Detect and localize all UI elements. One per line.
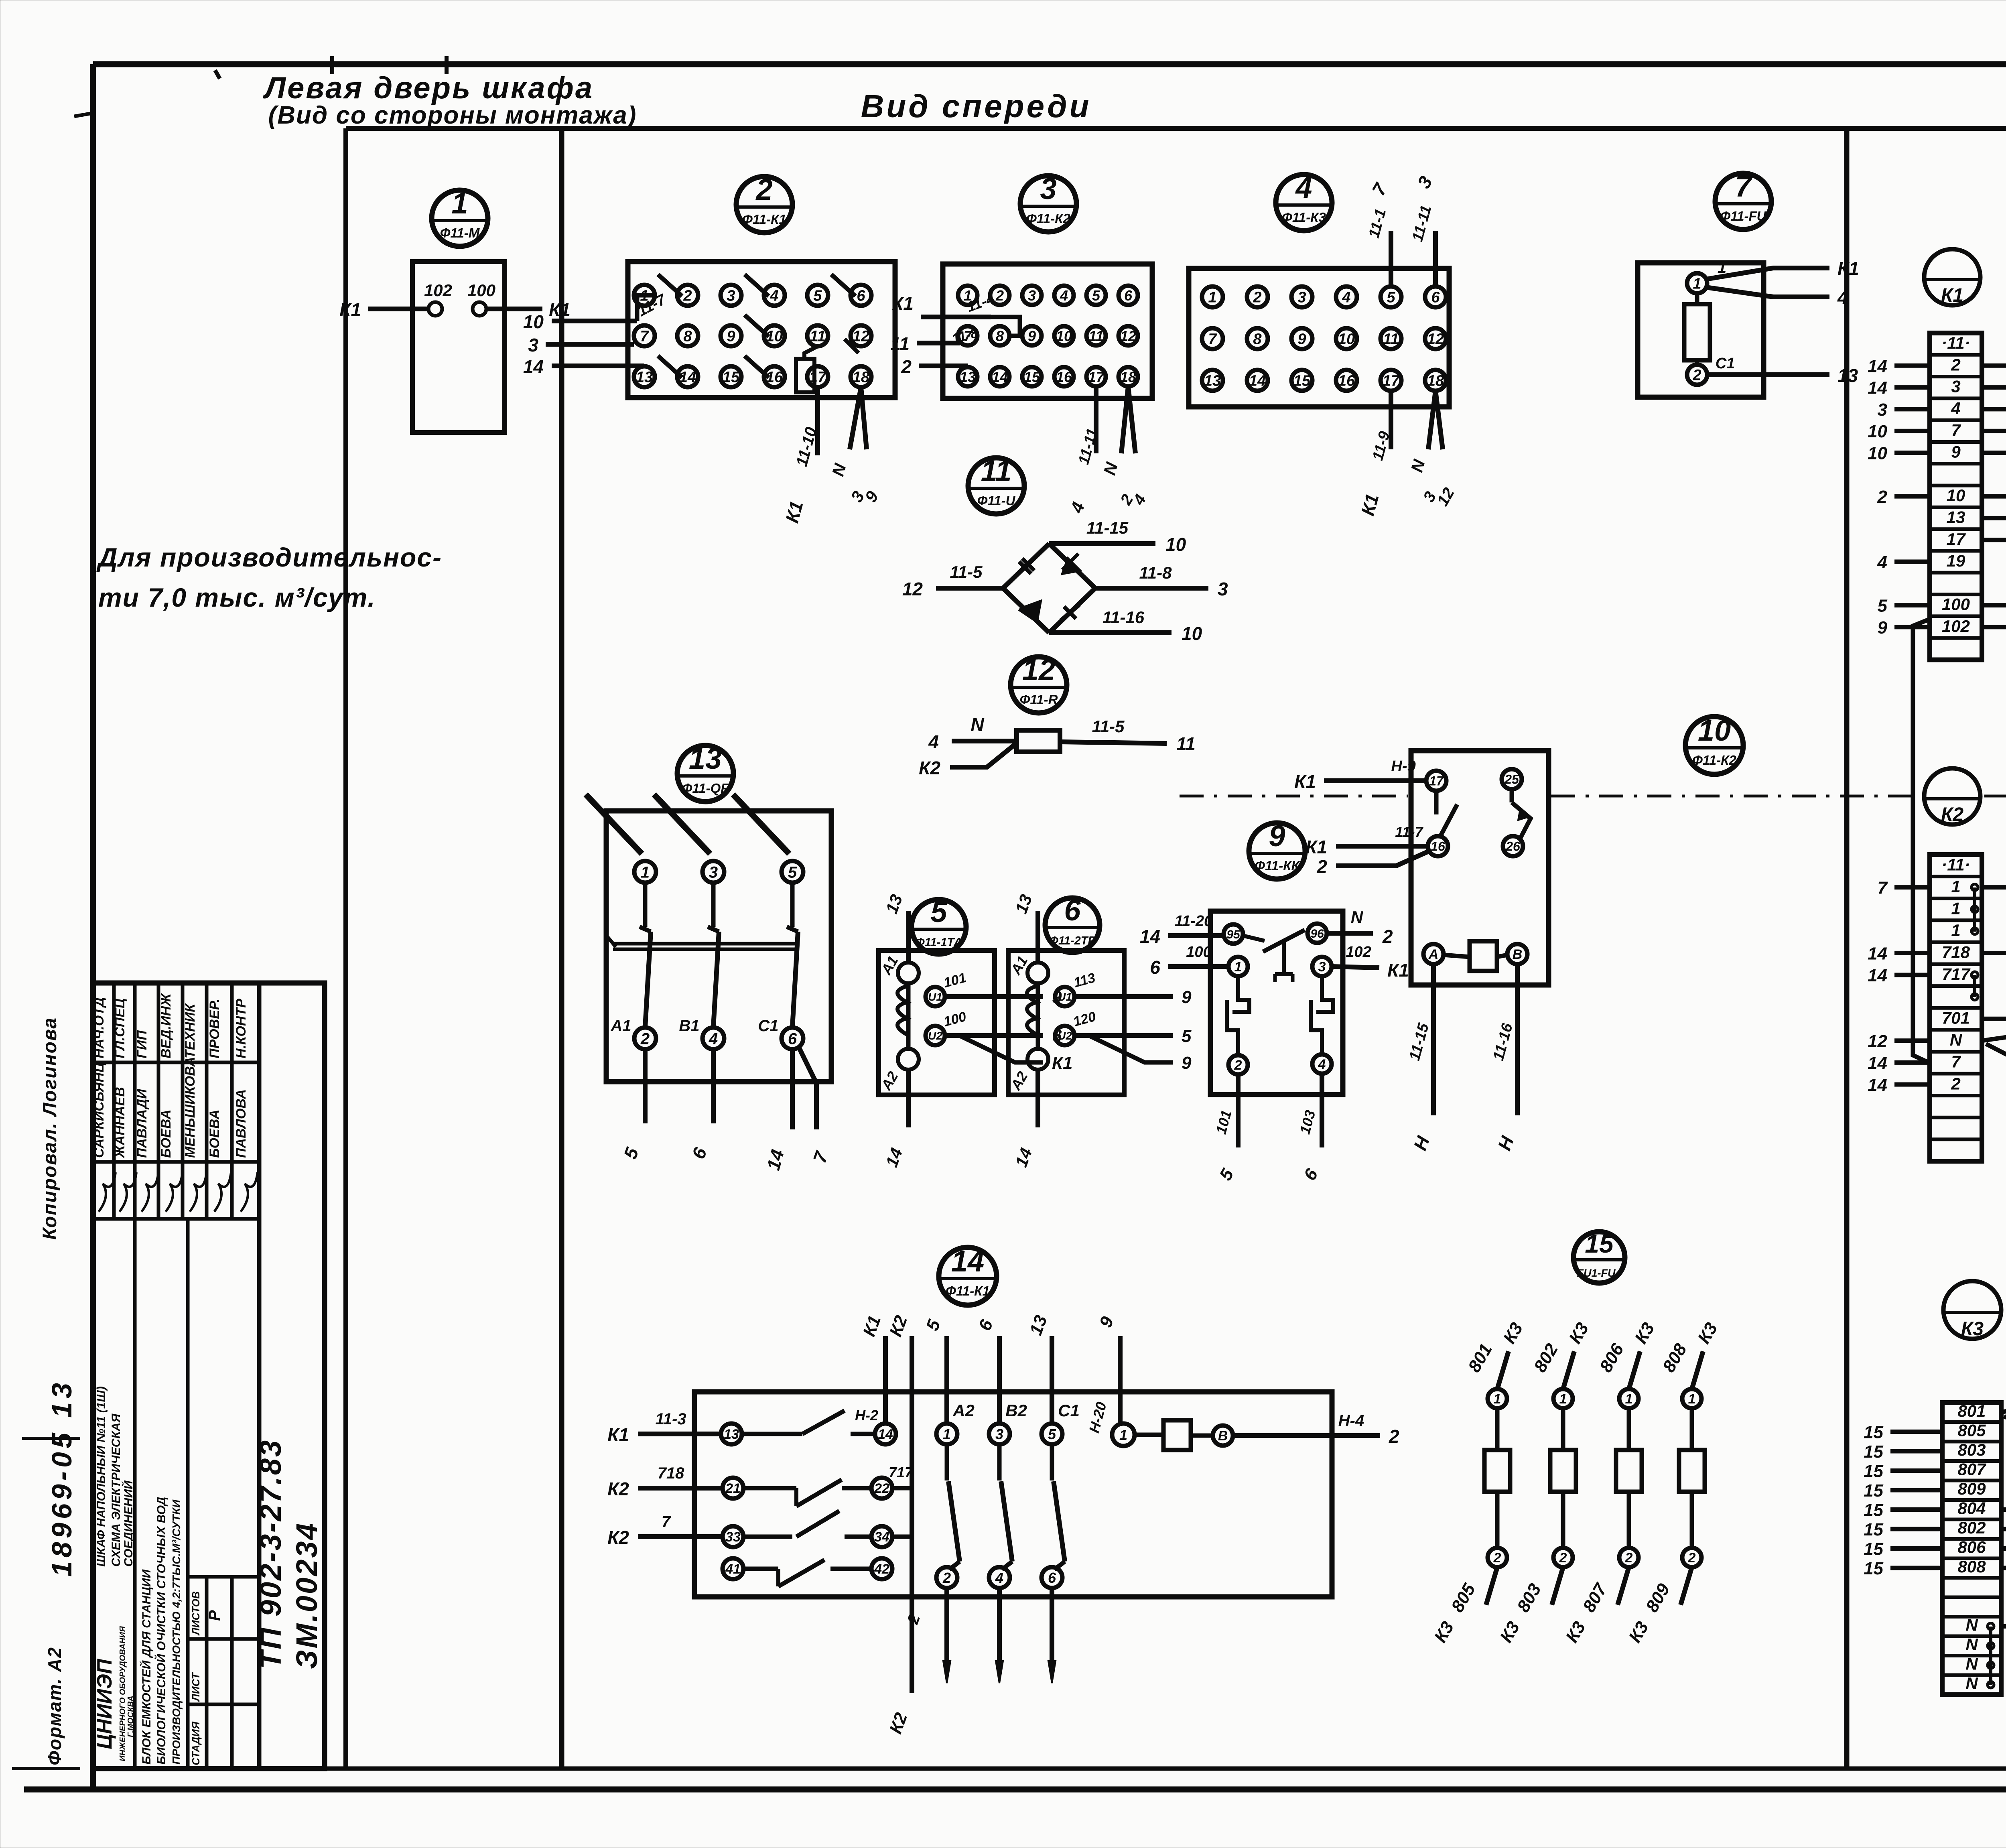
component id bubble 13 Ф11-QF (677, 742, 733, 802)
svg-text:12: 12 (1868, 1032, 1887, 1051)
fuse F with terminals 1 and 2 (1684, 259, 1735, 385)
svg-text:ШКАФ НАПОЛЬНЫЙ №11 (1Ш): ШКАФ НАПОЛЬНЫЙ №11 (1Ш) (94, 1386, 108, 1567)
svg-text:12: 12 (1120, 328, 1136, 344)
wire terminal 100 to K1 (486, 299, 571, 320)
svg-text:14: 14 (992, 369, 1008, 385)
svg-text:95: 95 (1226, 928, 1241, 941)
svg-text:САРКИСЬЯНЦ: САРКИСЬЯНЦ (91, 1062, 107, 1158)
title block signature rows text (91, 993, 258, 1212)
svg-text:3: 3 (1318, 959, 1326, 975)
svg-text:14: 14 (523, 356, 544, 377)
svg-text:В: В (1513, 947, 1523, 962)
svg-text:7: 7 (1878, 878, 1888, 898)
svg-text:4: 4 (1877, 552, 1887, 572)
svg-text:К3: К3 (1961, 1318, 1984, 1340)
svg-text:ЗМ.00234: ЗМ.00234 (290, 1521, 323, 1669)
svg-text:3: 3 (528, 335, 538, 355)
contactor 14 aux contact 33-34 wire K2 7 (607, 1511, 912, 1548)
svg-text:1: 1 (1625, 1391, 1633, 1407)
lamp/appliance box 1 Ф11-М with terminals 102 100 (412, 262, 505, 433)
svg-text:В1: В1 (679, 1017, 699, 1035)
svg-text:102: 102 (1346, 944, 1371, 961)
svg-text:17: 17 (1088, 369, 1105, 385)
bridge wire 11-16 to 10 (1049, 608, 1202, 644)
svg-text:Р: Р (206, 1610, 223, 1621)
svg-text:2: 2 (1688, 1550, 1696, 1566)
svg-text:Ф11-QF: Ф11-QF (682, 781, 729, 796)
svg-text:3: 3 (727, 288, 735, 305)
svg-text:Ф11-К2: Ф11-К2 (1692, 753, 1736, 768)
header: Левая дверь шкафа (263, 71, 637, 129)
svg-text:4: 4 (995, 1570, 1003, 1586)
svg-text:·11·: ·11· (1941, 333, 1970, 352)
svg-text:7: 7 (1735, 170, 1753, 203)
svg-text:10: 10 (1947, 486, 1965, 505)
svg-text:2: 2 (1951, 355, 1960, 374)
thermal relay heater elements (1227, 976, 1333, 1055)
svg-text:11-15: 11-15 (1086, 518, 1129, 537)
component id bubble 1 Ф11-М (432, 187, 488, 246)
svg-text:41: 41 (725, 1562, 741, 1577)
svg-text:1: 1 (1951, 877, 1960, 896)
svg-text:СОЕДИНЕНИЙ: СОЕДИНЕНИЙ (121, 1480, 135, 1567)
svg-text:100: 100 (1942, 595, 1970, 614)
svg-text:U1: U1 (1058, 991, 1072, 1003)
svg-text:9: 9 (1182, 987, 1192, 1007)
svg-text:U1: U1 (928, 991, 942, 1003)
cabinet panels top edge line (346, 126, 2006, 131)
svg-text:26: 26 (1505, 839, 1520, 854)
contactor 10 coil A-B (1423, 941, 1527, 971)
svg-text:4: 4 (1295, 171, 1312, 204)
block 2 bottom exit wires K1 11-10 and N 3 9 (781, 387, 882, 525)
svg-text:16: 16 (1338, 373, 1355, 390)
strip K3 left wires 15 (1864, 1423, 1942, 1579)
svg-text:11: 11 (890, 333, 910, 354)
svg-text:13: 13 (1204, 373, 1221, 390)
block 4 top entry wires 7 and 3 (1366, 173, 1437, 286)
svg-text:9: 9 (1269, 819, 1285, 853)
svg-text:10: 10 (1338, 331, 1355, 348)
header: Вид спереди (861, 88, 1092, 124)
fuse FU2 802/803 (1496, 1319, 1592, 1646)
svg-text:803: 803 (1957, 1440, 1986, 1459)
terminal block 2 body (628, 262, 895, 398)
component id bubble 5 Ф11-1ТА (912, 895, 966, 954)
svg-text:807: 807 (1957, 1460, 1986, 1478)
fuse FU4 808/809 (1625, 1319, 1721, 1646)
svg-text:А1: А1 (610, 1017, 631, 1035)
strip K3 right wires (2001, 1396, 2006, 1637)
svg-text:14: 14 (1140, 926, 1160, 947)
svg-text:8: 8 (1253, 331, 1262, 348)
svg-text:9: 9 (1182, 1053, 1192, 1073)
svg-text:5: 5 (1048, 1426, 1056, 1442)
svg-text:К1: К1 (1837, 258, 1859, 279)
svg-text:4: 4 (1342, 289, 1350, 306)
svg-text:БОЕВА: БОЕВА (207, 1109, 222, 1158)
svg-text:Ф11-1ТА: Ф11-1ТА (916, 936, 962, 949)
svg-text:809: 809 (1957, 1479, 1986, 1498)
svg-text:15: 15 (1864, 1559, 1883, 1578)
svg-text:1: 1 (641, 863, 650, 881)
svg-text:18: 18 (1427, 373, 1444, 390)
svg-text:14: 14 (1868, 1075, 1887, 1095)
svg-text:6: 6 (1124, 287, 1133, 304)
svg-text:N: N (971, 714, 984, 735)
svg-text:2: 2 (683, 288, 692, 305)
thermal relay terminals 95 96 1 3 2 4 (1224, 924, 1332, 1074)
svg-text:5: 5 (1182, 1026, 1192, 1046)
component id bubble 15 FU1-FU4 (1574, 1229, 1625, 1283)
svg-text:42: 42 (874, 1562, 889, 1577)
svg-text:1: 1 (1208, 289, 1216, 306)
svg-text:Ф11-2ТР: Ф11-2ТР (1049, 934, 1096, 947)
svg-text:А: А (1428, 947, 1439, 962)
svg-text:Формат. А2: Формат. А2 (44, 1647, 65, 1765)
svg-text:14: 14 (1249, 373, 1266, 390)
fold tick marks on top border (215, 56, 447, 79)
component id bubble 10 Ф11-К2 (1685, 714, 1743, 774)
svg-text:16: 16 (1056, 369, 1072, 385)
svg-text:СХЕМА ЭЛЕКТРИЧЕСКАЯ: СХЕМА ЭЛЕКТРИЧЕСКАЯ (110, 1413, 123, 1567)
transformer box 5 Ф11-1ТА (879, 950, 995, 1095)
transformer 6 secondary terminals U1 U2 with wires (1055, 970, 1192, 1073)
front view door centerline dash-dot (1180, 795, 2006, 798)
svg-text:ПРОВЕР.: ПРОВЕР. (207, 999, 222, 1058)
left door panel left edge (343, 128, 348, 1769)
transformer 5 primary wire 13-14 with terminals A1 A2 (877, 892, 919, 1170)
svg-text:34: 34 (874, 1529, 889, 1545)
svg-text:Левая дверь шкафа: Левая дверь шкафа (263, 71, 594, 105)
divider left door / front view (559, 128, 564, 1769)
svg-text:18: 18 (853, 369, 870, 386)
svg-text:5: 5 (1878, 596, 1888, 616)
thermal relay bottom wires 101 5 and 103 6 (1212, 1074, 1322, 1184)
svg-text:К1: К1 (607, 1424, 629, 1445)
svg-text:N: N (1965, 1654, 1978, 1673)
contactor 14 aux contact 41-42 (723, 1558, 892, 1586)
svg-text:102: 102 (424, 281, 452, 300)
diode bridge rectifier diamond (1003, 544, 1095, 633)
svg-text:К2: К2 (1941, 804, 1964, 825)
title block object description text (139, 1497, 183, 1765)
svg-text:2: 2 (1234, 1058, 1242, 1073)
title block organisation ЦНИИЭП (93, 1626, 135, 1761)
svg-text:К1: К1 (339, 299, 361, 320)
strip K1 right wires (1982, 356, 2006, 638)
svg-text:21: 21 (725, 1481, 741, 1496)
svg-text:14: 14 (878, 1427, 893, 1442)
svg-text:10: 10 (1165, 534, 1186, 555)
svg-text:4: 4 (1837, 287, 1848, 308)
margin text Копировал Логинова (39, 1017, 61, 1240)
svg-text:16: 16 (1431, 839, 1445, 854)
svg-text:7: 7 (1951, 420, 1961, 439)
svg-text:N: N (1965, 1635, 1978, 1654)
svg-text:15: 15 (1864, 1423, 1883, 1442)
component id bubble 12 Ф11-R (1011, 653, 1067, 713)
strip K2 jumper links (1971, 884, 1978, 1000)
svg-text:БИОЛОГИЧЕСКОЙ ОЧИСТКИ СТОЧНЫХ: БИОЛОГИЧЕСКОЙ ОЧИСТКИ СТОЧНЫХ ВОД (154, 1497, 168, 1765)
breaker bottom exit wires 5 6 14 7 (619, 1046, 832, 1172)
svg-text:ПАВЛОВА: ПАВЛОВА (233, 1089, 249, 1158)
breaker tie bar (606, 935, 799, 949)
svg-text:100: 100 (467, 281, 495, 300)
svg-text:12: 12 (902, 579, 923, 599)
resistor left wires 4 N and K2 (919, 714, 1017, 778)
svg-text:96: 96 (1310, 927, 1324, 940)
svg-text:4: 4 (928, 731, 939, 752)
svg-text:ПРОИЗВОДИТЕЛЬНОСТЬЮ 4,2:7ТЫС.М: ПРОИЗВОДИТЕЛЬНОСТЬЮ 4,2:7ТЫС.М³/СУТКИ (170, 1499, 183, 1765)
svg-text:3: 3 (1297, 289, 1306, 306)
bridge wire 11-5 from 12 (902, 563, 1003, 599)
svg-text:N: N (1351, 908, 1364, 926)
svg-text:2: 2 (1692, 367, 1701, 384)
svg-text:N: N (1965, 1674, 1978, 1693)
terminal block 2 contact circles 1-18 (634, 285, 871, 387)
wire K1 to terminal 102 (339, 299, 428, 320)
svg-text:718: 718 (1942, 943, 1970, 962)
svg-text:701: 701 (1942, 1009, 1970, 1028)
svg-text:10: 10 (523, 311, 544, 332)
svg-text:А2: А2 (952, 1401, 975, 1420)
svg-text:1: 1 (943, 1426, 951, 1442)
terminal strip K2 rows 11 1 1 1 718 717 701 N 7 2 (1930, 855, 1982, 1161)
component id bubble 11 Ф11-U (968, 454, 1024, 514)
svg-text:2: 2 (1877, 487, 1888, 507)
svg-text:15: 15 (1864, 1520, 1883, 1539)
title block stage cells (190, 1591, 223, 1765)
svg-text:6: 6 (1048, 1570, 1056, 1586)
svg-text:11-20: 11-20 (1175, 913, 1212, 930)
svg-text:ТЕХНИК: ТЕХНИК (183, 1003, 198, 1058)
svg-text:15: 15 (1864, 1539, 1883, 1559)
strip K2 right wires (1982, 878, 2006, 1073)
svg-text:Г.МОСКВА: Г.МОСКВА (126, 1696, 135, 1737)
svg-text:Н-9: Н-9 (1391, 758, 1415, 775)
svg-text:1: 1 (451, 187, 468, 220)
svg-text:7: 7 (1208, 331, 1217, 348)
svg-text:2: 2 (1389, 1426, 1399, 1447)
svg-text:Ф11-К3: Ф11-К3 (1282, 210, 1326, 225)
svg-text:9: 9 (1297, 331, 1306, 348)
contactor 14 aux contact 13-14 wire K1 11-3 (607, 1313, 896, 1445)
circuit breaker box 13 (606, 811, 831, 1082)
svg-text:Копировал. Логинова: Копировал. Логинова (39, 1017, 61, 1240)
strip K3 jumper links on N rows (1988, 1623, 1994, 1688)
svg-text:К1: К1 (1306, 837, 1327, 857)
svg-text:15: 15 (723, 369, 740, 386)
margin text Формат А2 (44, 1647, 65, 1765)
svg-text:15: 15 (1024, 369, 1040, 385)
component id bubble 14 Ф11-К1 (939, 1245, 997, 1305)
svg-text:5: 5 (1387, 289, 1395, 306)
component id bubble K2 (1924, 768, 1980, 825)
svg-text:С1: С1 (1716, 355, 1735, 372)
svg-text:В2: В2 (1005, 1401, 1027, 1420)
transformer 6 primary wire 13-14 with terminals A1 A2 (1007, 892, 1048, 1170)
svg-text:8: 8 (996, 328, 1004, 344)
svg-text:6: 6 (1431, 289, 1440, 306)
svg-text:К1: К1 (1052, 1053, 1073, 1073)
svg-text:К2: К2 (607, 1478, 629, 1499)
svg-text:ВЕД.ИНЖ: ВЕД.ИНЖ (158, 993, 174, 1058)
svg-text:Н-2: Н-2 (855, 1407, 878, 1424)
contactor 14 coil circuit Н-20 9 (1086, 1314, 1399, 1450)
svg-text:К2: К2 (607, 1527, 629, 1548)
svg-text:3: 3 (1040, 172, 1056, 205)
svg-text:N: N (1950, 1030, 1963, 1049)
svg-text:14: 14 (951, 1245, 984, 1278)
svg-text:ти 7,0 тыс. м³/сут.: ти 7,0 тыс. м³/сут. (98, 583, 376, 612)
svg-text:Н-4: Н-4 (1338, 1412, 1364, 1430)
svg-text:ЛИСТОВ: ЛИСТОВ (190, 1591, 202, 1636)
thermal relay NC contact lever (1243, 930, 1309, 982)
svg-text:17: 17 (1947, 530, 1966, 548)
svg-text:806: 806 (1957, 1537, 1986, 1556)
note: Для производительности 7,0 тыс. м3/сут (96, 542, 442, 612)
svg-text:Ф11-К2: Ф11-К2 (1026, 211, 1070, 226)
svg-text:Ф11-К1: Ф11-К1 (946, 1283, 990, 1298)
svg-text:1: 1 (1559, 1391, 1567, 1407)
svg-text:4: 4 (709, 1030, 718, 1048)
svg-text:Ф11-К1: Ф11-К1 (742, 212, 786, 227)
svg-text:14: 14 (1868, 966, 1887, 985)
contactor 14 aux contact 21-22 wire K2 718 (607, 1464, 914, 1506)
svg-text:12: 12 (1427, 331, 1444, 348)
svg-text:Н.КОНТР: Н.КОНТР (233, 999, 249, 1058)
terminal block 3 contact circles 1-18 (958, 286, 1138, 386)
svg-text:ГИП: ГИП (134, 1030, 150, 1058)
svg-text:2: 2 (755, 173, 772, 206)
svg-text:С1: С1 (758, 1017, 778, 1035)
svg-text:U2: U2 (1058, 1030, 1072, 1042)
svg-text:5: 5 (788, 863, 797, 881)
svg-text:10: 10 (1868, 444, 1887, 463)
svg-text:Ф11-FU: Ф11-FU (1720, 209, 1766, 223)
svg-text:10: 10 (1182, 623, 1202, 644)
svg-text:ПАВЛАДИ: ПАВЛАДИ (134, 1088, 150, 1158)
svg-text:15: 15 (1864, 1501, 1883, 1520)
svg-text:15: 15 (1293, 373, 1311, 390)
svg-text:17: 17 (809, 369, 827, 386)
contactor 14 main poles 1-2 3-4 5-6 (922, 1313, 1080, 1683)
svg-text:2: 2 (901, 356, 912, 377)
fold marks left margin (12, 114, 90, 1769)
svg-text:ТП 902-3-27.83: ТП 902-3-27.83 (254, 1439, 287, 1669)
thermal relay left wires 14 11-20 and 6 100 (1140, 913, 1228, 978)
component id bubble 7 Ф11-FU (1715, 170, 1771, 229)
svg-text:2: 2 (1559, 1550, 1567, 1566)
svg-text:3: 3 (1878, 400, 1887, 420)
component id bubble 4 Ф11-К3 (1276, 171, 1332, 231)
svg-text:Для производительнос-: Для производительнос- (96, 542, 442, 572)
svg-text:7: 7 (662, 1513, 671, 1531)
svg-text:11-16: 11-16 (1102, 608, 1145, 627)
svg-text:2: 2 (995, 287, 1004, 304)
svg-text:804: 804 (1957, 1499, 1986, 1517)
svg-text:БЛОК ЕМКОСТЕЙ ДЛЯ СТАНЦИИ: БЛОК ЕМКОСТЕЙ ДЛЯ СТАНЦИИ (139, 1569, 153, 1765)
svg-text:5: 5 (930, 895, 948, 928)
svg-text:13: 13 (1837, 365, 1858, 386)
svg-text:3: 3 (709, 863, 718, 881)
svg-text:2: 2 (1253, 289, 1261, 306)
component id bubble 3 Ф11-К2 (1020, 172, 1076, 232)
svg-text:2: 2 (942, 1570, 951, 1586)
svg-text:Ф11-R: Ф11-R (1020, 692, 1058, 707)
svg-text:17: 17 (1383, 373, 1400, 390)
block 2 internal relay element rect (796, 339, 859, 392)
svg-text:НАЧ.ОТД: НАЧ.ОТД (91, 997, 107, 1058)
svg-text:15: 15 (1864, 1442, 1883, 1462)
svg-text:(Вид со стороны монтажа): (Вид со стороны монтажа) (268, 102, 637, 129)
svg-text:4: 4 (1060, 287, 1068, 304)
svg-text:14: 14 (1868, 356, 1887, 376)
svg-text:11: 11 (981, 454, 1012, 487)
component id bubble 6 Ф11-2ТР (1045, 894, 1100, 952)
margin text 18969-05 13 (46, 1379, 77, 1577)
strip K1 left wires (1868, 356, 1930, 638)
svg-text:13: 13 (689, 742, 722, 775)
svg-text:N: N (1965, 1615, 1978, 1634)
svg-text:9: 9 (1878, 618, 1888, 638)
svg-text:17: 17 (1429, 774, 1444, 788)
svg-text:2: 2 (1951, 1074, 1960, 1093)
svg-text:10: 10 (1056, 328, 1072, 344)
title block sheet name text (94, 1386, 135, 1567)
svg-text:8: 8 (683, 328, 692, 345)
svg-text:СТАДИЯ: СТАДИЯ (190, 1721, 202, 1765)
svg-text:1: 1 (1234, 959, 1242, 975)
svg-text:22: 22 (874, 1481, 889, 1496)
strip K2 left wires (1868, 878, 1930, 1095)
svg-text:13: 13 (960, 369, 976, 385)
svg-text:2: 2 (1382, 926, 1393, 947)
fuse holder box 7 (1638, 263, 1764, 397)
block 2 left entry wires 10 3 14 (523, 291, 669, 377)
svg-text:808: 808 (1957, 1557, 1986, 1576)
terminal block 2 jumper check strokes (658, 274, 855, 378)
contactor 10 contact 25-26 (1502, 769, 1531, 856)
bridge wire 11-15 to 10 (1049, 518, 1186, 555)
svg-text:1: 1 (1119, 1427, 1127, 1443)
breaker pole 1 contacts (586, 794, 656, 1049)
block 3 bottom exit wires 4 N 2 4 (1067, 386, 1150, 516)
title block table frame (93, 983, 325, 1769)
svg-text:11: 11 (1088, 328, 1103, 344)
svg-text:11-5: 11-5 (1092, 717, 1125, 736)
thermal relay right wires N 2 and 102 K1 (1327, 908, 1409, 981)
svg-text:ИНЖЕНЕРНОГО ОБОРУДОВАНИЯ: ИНЖЕНЕРНОГО ОБОРУДОВАНИЯ (118, 1626, 127, 1761)
svg-text:15: 15 (1864, 1481, 1883, 1501)
svg-text:Ф11-М: Ф11-М (440, 225, 480, 240)
svg-text:11: 11 (1383, 331, 1399, 348)
svg-text:15: 15 (1864, 1462, 1883, 1481)
svg-text:3: 3 (995, 1426, 1003, 1442)
svg-text:FU1-FU4: FU1-FU4 (1577, 1267, 1621, 1279)
svg-text:7: 7 (640, 328, 649, 345)
svg-text:К1: К1 (1941, 285, 1963, 306)
svg-text:Ф11-U: Ф11-U (977, 493, 1016, 508)
component id bubble K3 (1943, 1281, 2001, 1340)
fuse FU3 806/807 (1562, 1319, 1658, 1646)
svg-text:К1: К1 (1294, 771, 1316, 792)
svg-text:11: 11 (1176, 733, 1196, 754)
svg-text:7: 7 (1951, 1052, 1961, 1071)
contactor box 10 (1411, 751, 1549, 985)
svg-text:11-5: 11-5 (950, 563, 983, 581)
